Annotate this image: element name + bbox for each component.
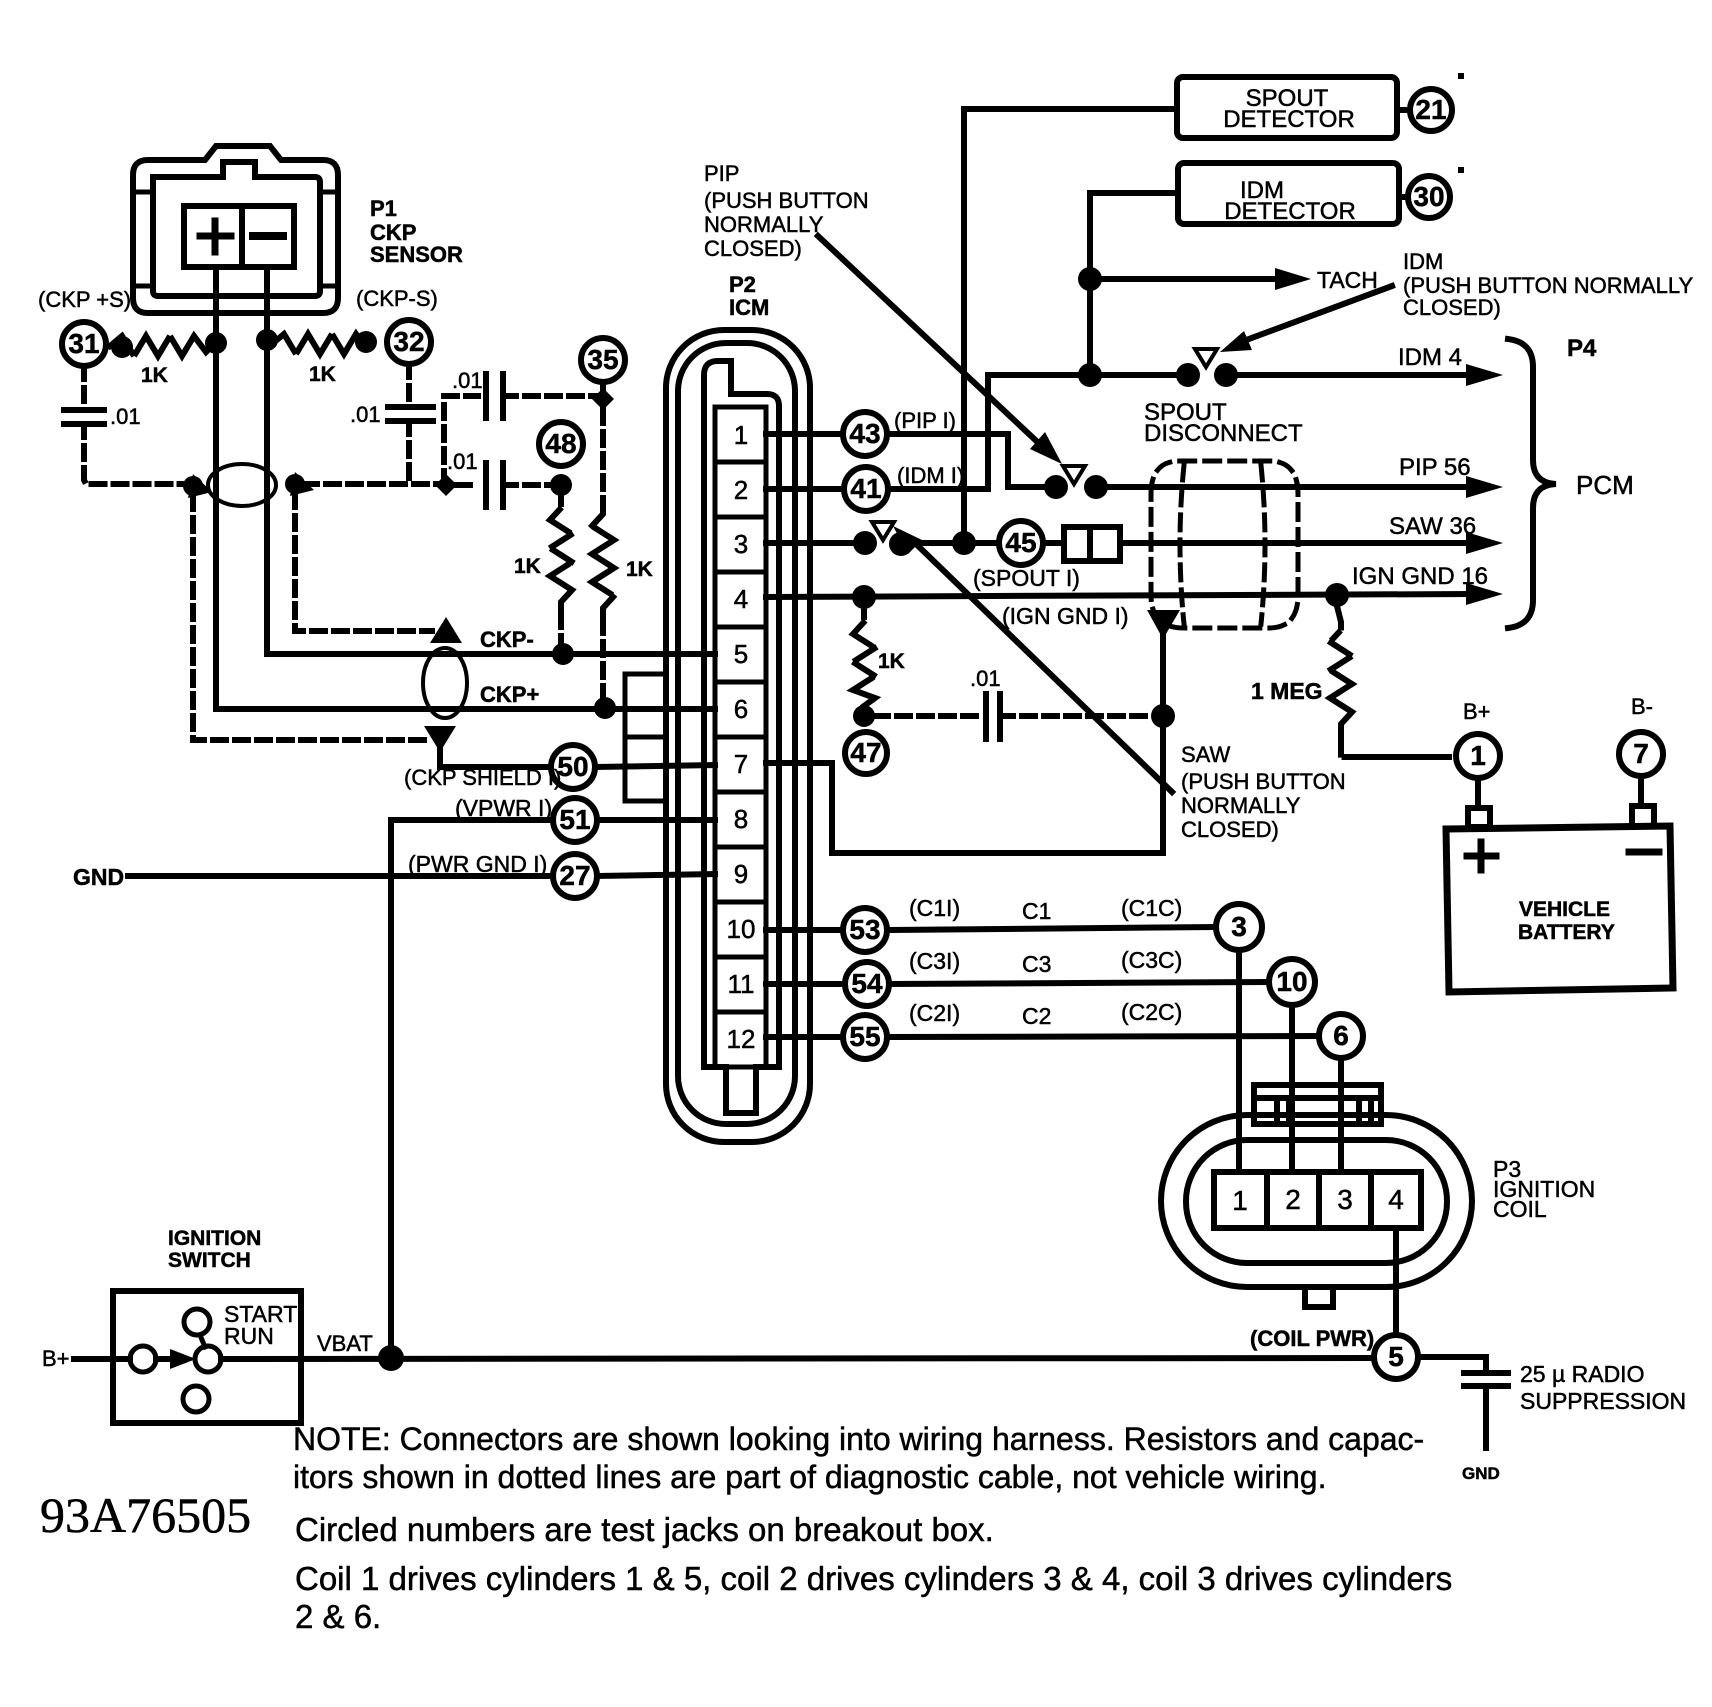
svg-text:6: 6 <box>1333 1020 1349 1051</box>
switch lever <box>200 1335 205 1347</box>
svg-text:2: 2 <box>734 475 748 505</box>
label P1 CKP SENSOR <box>370 196 463 267</box>
label CKP- <box>480 627 534 652</box>
svg-text:5: 5 <box>734 639 748 669</box>
svg-text:48: 48 <box>545 428 576 459</box>
svg-text:(C3I): (C3I) <box>909 948 960 974</box>
svg-text:(VPWR I): (VPWR I) <box>455 795 552 821</box>
wire pin2 to jack 41 <box>766 486 844 492</box>
push button NC symbol on PIP line <box>1063 466 1085 484</box>
labels C2 row <box>909 999 1182 1029</box>
IDM DETECTOR box <box>1178 163 1399 224</box>
arrow dot right of twisted pair <box>285 472 314 496</box>
resistor 1K column left (48 to CKP-) dashed zigzag <box>550 496 572 614</box>
svg-text:(C2C): (C2C) <box>1121 999 1182 1025</box>
svg-text:8: 8 <box>734 804 748 834</box>
arrowhead up at end of branch <box>430 617 462 643</box>
svg-text:30: 30 <box>1413 181 1444 212</box>
connector P2 ICM inner key outline <box>704 361 779 1113</box>
svg-text:P1: P1 <box>370 196 397 221</box>
svg-text:1K: 1K <box>626 558 653 581</box>
asterisk dot near 21 <box>1458 73 1464 79</box>
dashed shield vertical from twisted pair down <box>193 496 428 740</box>
svg-text:itors shown in dotted lines ar: itors shown in dotted lines are part of … <box>293 1459 1326 1495</box>
svg-text:.01: .01 <box>110 404 141 429</box>
svg-text:DETECTOR: DETECTOR <box>1224 198 1356 225</box>
svg-text:.01: .01 <box>350 402 381 427</box>
label IDM 4 <box>1398 344 1462 371</box>
test jack 55 <box>843 1015 887 1059</box>
pointer line from IDM text to IDM NC symbol <box>1238 286 1392 343</box>
junction diamond at x444 on shield run <box>435 474 457 496</box>
svg-text:CKP-: CKP- <box>480 627 534 652</box>
label 1K right <box>309 363 336 386</box>
svg-text:SENSOR: SENSOR <box>370 242 463 267</box>
svg-text:1: 1 <box>1232 1185 1248 1216</box>
P2 pin 4 box <box>715 572 766 627</box>
svg-text:25 µ RADIO: 25 µ RADIO <box>1520 1361 1644 1387</box>
junction dot TACH <box>1078 267 1102 291</box>
junction diamond below jack 35 <box>592 388 614 410</box>
test jack 1 B+ <box>1456 734 1500 778</box>
svg-text:3: 3 <box>1337 1184 1353 1215</box>
battery plus mark <box>1467 842 1496 870</box>
svg-text:21: 21 <box>1415 94 1446 125</box>
wire CKP+ from P1 plus pin down and right to ICM pin 6 <box>216 267 715 709</box>
wire C1 jack 53 to jack 3 <box>887 927 1216 930</box>
label B- <box>1631 694 1653 719</box>
test jack 48 <box>539 422 583 466</box>
P3 coil pin 4 box <box>1371 1172 1421 1228</box>
svg-text:27: 27 <box>559 860 590 891</box>
label CKP+ <box>480 682 539 707</box>
upper dashed branch to jack 35 <box>444 396 478 484</box>
svg-text:(PWR GND I): (PWR GND I) <box>408 851 547 877</box>
P3 coil pin numbers <box>1232 1184 1404 1216</box>
label .01 upper branch cap <box>452 368 483 393</box>
P2 pin 2 box <box>715 462 766 517</box>
svg-text:10: 10 <box>727 914 756 944</box>
wire jack 27 to pin 9 <box>597 874 715 876</box>
svg-text:1 MEG: 1 MEG <box>1251 678 1323 704</box>
label IDM DETECTOR <box>1224 177 1356 225</box>
jack number 35 <box>587 344 618 375</box>
svg-text:IDM: IDM <box>1403 249 1443 274</box>
svg-text:43: 43 <box>849 418 880 449</box>
svg-text:31: 31 <box>68 328 99 359</box>
wire VBAT from switch to jack 5 and beyond <box>221 1358 1374 1359</box>
test jack 47 <box>845 732 887 774</box>
svg-text:1K: 1K <box>878 650 905 673</box>
svg-text:53: 53 <box>849 914 880 945</box>
label .01 jack32 cap <box>350 402 381 427</box>
test jack 45 <box>999 521 1043 565</box>
label (CKP-S) <box>356 286 438 311</box>
wire pin10 to jack 53 <box>766 927 843 933</box>
arrowhead of PIP pointer <box>1030 432 1062 464</box>
svg-text:11: 11 <box>728 969 755 999</box>
label (COIL PWR) <box>1250 1326 1374 1351</box>
test jack 43 <box>843 412 887 456</box>
label (CKP SHIELD I) <box>404 765 561 790</box>
wire B+ into switch <box>74 1356 130 1362</box>
svg-text:RUN: RUN <box>224 1323 274 1349</box>
jack number 27 <box>559 860 590 891</box>
P1 pin box minus <box>242 206 294 267</box>
wire PIP 56 to PCM <box>1108 484 1471 490</box>
svg-text:(CKP-S): (CKP-S) <box>356 286 438 311</box>
wire PIP from jack 43 stepping down <box>887 434 1044 487</box>
P1 pin box plus <box>184 206 242 267</box>
svg-text:NORMALLY: NORMALLY <box>704 212 824 237</box>
test jack 3 <box>1216 904 1262 950</box>
svg-text:5: 5 <box>1388 1341 1404 1372</box>
label SPOUT DETECTOR <box>1223 85 1355 133</box>
arrowhead IGN GND 16 <box>1466 583 1503 605</box>
svg-text:CKP+: CKP+ <box>480 682 539 707</box>
label VEHICLE BATTERY <box>1518 898 1615 944</box>
shield drain arrowhead below grommet <box>1147 610 1180 639</box>
push button NC symbol on SAW line <box>872 522 894 540</box>
svg-text:(COIL PWR): (COIL PWR) <box>1250 1326 1374 1351</box>
label (PIP I) <box>894 408 956 433</box>
svg-text:12: 12 <box>727 1024 756 1054</box>
test jack 31 <box>62 322 106 366</box>
wire TACH <box>1090 276 1280 282</box>
jack number 6 <box>1333 1020 1349 1051</box>
dashed shield run right of twisted pair to 48 junction <box>304 481 440 487</box>
svg-text:51: 51 <box>559 804 590 835</box>
resistor 1 MEG dashed zigzag <box>1330 606 1449 757</box>
ignition switch contact bottom <box>183 1386 209 1412</box>
svg-text:54: 54 <box>851 968 883 999</box>
label P2 ICM <box>729 272 769 320</box>
junction dot IDM detector column <box>1078 363 1102 387</box>
resistor 1K below pin4 line (dashed zigzag) <box>853 609 875 706</box>
note coil drives line 1 <box>295 1560 1452 1597</box>
arrowhead SAW 36 <box>1466 532 1503 554</box>
junction dot PIP NC right <box>1084 475 1108 499</box>
plus symbol <box>200 221 231 252</box>
P3 ignition coil outer oval <box>1161 1115 1472 1287</box>
jack number 30 <box>1413 181 1444 212</box>
resistor 1K between CKP- wire and jack 32 (dashed zigzag) <box>272 334 366 354</box>
svg-text:SUPPRESSION: SUPPRESSION <box>1520 1388 1686 1414</box>
label PCM <box>1576 470 1634 500</box>
svg-text:(PUSH BUTTON: (PUSH BUTTON <box>1181 769 1346 794</box>
ignition switch contact middle <box>195 1346 221 1372</box>
svg-text:6: 6 <box>734 694 748 724</box>
label SAW push button block <box>1181 742 1346 842</box>
jack number 7 <box>1633 738 1649 769</box>
label (VPWR I) <box>455 795 552 821</box>
note circled numbers <box>295 1511 994 1548</box>
svg-text:3: 3 <box>1231 911 1247 942</box>
junction dot above jack 47 <box>853 705 875 727</box>
svg-text:.01: .01 <box>970 666 1001 691</box>
jack number 5 <box>1388 1341 1404 1372</box>
junction dot SPOUT detector column <box>952 531 976 555</box>
test jack 6 <box>1319 1014 1363 1058</box>
wire jack 6 down to coil pin 3 <box>1338 1058 1344 1172</box>
wire VPWR corner from VBAT junction up to jack 51 and pin 8 <box>391 820 553 1357</box>
label SPOUT DISCONNECT <box>1144 399 1303 447</box>
svg-text:1K: 1K <box>141 364 168 387</box>
wire GND to jack 27 <box>128 873 553 879</box>
jack 35 lead <box>600 382 606 390</box>
junction dot SAW NC right <box>889 532 913 556</box>
capacitor .01 below jack 32 <box>406 364 412 405</box>
label PIP 56 <box>1399 454 1471 481</box>
svg-text:DISCONNECT: DISCONNECT <box>1144 420 1303 447</box>
svg-text:GND: GND <box>73 864 124 890</box>
junction dot IDM NC right <box>1214 363 1238 387</box>
P2 pin 1 box <box>715 407 766 462</box>
svg-text:PIP: PIP <box>704 161 739 186</box>
P2 pin 11 box <box>715 957 766 1012</box>
junction dot on IGN GND at 1K column <box>852 585 876 609</box>
connector P1 CKP sensor outer shell <box>133 146 338 313</box>
battery negative terminal <box>1632 776 1654 826</box>
svg-text:1: 1 <box>734 420 748 450</box>
label P3 IGNITION COIL <box>1493 1156 1595 1222</box>
arrowhead TACH <box>1275 268 1311 290</box>
jack number 47 <box>850 737 881 768</box>
wire C2 jack 55 to jack 6 <box>887 1036 1319 1037</box>
note text line 1 <box>293 1421 1424 1457</box>
figure number 93A76505 <box>40 1487 251 1543</box>
P3 coil pin 3 box <box>1319 1172 1371 1228</box>
label (PWR GND I) <box>408 851 547 877</box>
P3 coil pin 1 box <box>1214 1172 1267 1228</box>
label START RUN <box>224 1301 297 1349</box>
label B+ bottom left <box>42 1346 70 1371</box>
svg-text:SWITCH: SWITCH <box>168 1249 251 1272</box>
junction dot IGN GND at 1MEG <box>1325 583 1349 607</box>
test jack 54 <box>845 962 889 1006</box>
P2 pin 12 box <box>715 1012 766 1067</box>
svg-text:7: 7 <box>1633 738 1649 769</box>
label IDM push button block <box>1403 249 1693 320</box>
svg-text:1K: 1K <box>514 555 541 578</box>
wire pin1 to jack 43 <box>766 431 843 437</box>
junction dot at jack31 resistor left <box>111 336 133 358</box>
jack number 51 <box>559 804 590 835</box>
svg-text:ICM: ICM <box>729 295 769 320</box>
svg-text:4: 4 <box>734 584 748 614</box>
junction dot VBAT <box>378 1345 404 1371</box>
svg-text:(SPOUT I): (SPOUT I) <box>973 565 1080 591</box>
junction diamond on CKP- at left 1K column <box>552 643 574 665</box>
jack number 3 <box>1231 911 1247 942</box>
test jack 50 <box>551 745 595 789</box>
junction dot PIP NC left <box>1044 475 1068 499</box>
label 25u RADIO SUPPRESSION <box>1520 1361 1686 1414</box>
note coil drives line 2 <box>295 1598 381 1635</box>
P3 coil top connector block <box>1254 1085 1381 1124</box>
switch arrow <box>156 1356 180 1362</box>
arrowhead IDM 4 <box>1466 364 1503 386</box>
svg-text:CLOSED): CLOSED) <box>704 236 802 261</box>
P2 pin 5 box <box>715 627 766 682</box>
label PIP push button block <box>704 161 869 261</box>
arrowhead of SAW pointer <box>893 526 922 554</box>
svg-text:2: 2 <box>1285 1184 1301 1215</box>
junction dot on drain vertical <box>1151 704 1175 728</box>
capacitor .01 below jack 31 <box>81 366 87 408</box>
junction dot on CKP+ wire <box>205 332 227 354</box>
svg-text:55: 55 <box>849 1021 880 1052</box>
P2 pin 9 box <box>715 847 766 902</box>
twisted pair marker ellipse on shield run <box>208 464 276 506</box>
svg-text:1K: 1K <box>309 363 336 386</box>
inline filter two-box component <box>1064 527 1120 561</box>
svg-text:3: 3 <box>734 529 748 559</box>
svg-text:IGNITION: IGNITION <box>168 1227 261 1250</box>
svg-text:NORMALLY: NORMALLY <box>1181 793 1301 818</box>
jack number 31 <box>68 328 99 359</box>
resistor 1K column right (35 to CKP+) dashed zigzag <box>600 410 606 508</box>
svg-text:IDM 4: IDM 4 <box>1398 344 1462 371</box>
label 1K pin4 resistor <box>878 650 905 673</box>
P2 mounting bracket left of pins 5-7 <box>625 674 666 801</box>
label 1K column right <box>626 558 653 581</box>
label IGN GND 16 <box>1352 563 1488 590</box>
test jack 30 <box>1399 176 1450 218</box>
jack number 45 <box>1005 527 1036 558</box>
jack number 50 <box>557 751 588 782</box>
svg-text:C3: C3 <box>1022 951 1051 977</box>
svg-text:.01: .01 <box>447 449 478 474</box>
minus symbol <box>253 232 283 240</box>
test jack 27 <box>553 854 597 898</box>
svg-text:45: 45 <box>1005 527 1036 558</box>
wire pin11 to jack 54 <box>766 981 845 987</box>
svg-text:35: 35 <box>587 344 618 375</box>
svg-text:50: 50 <box>557 751 588 782</box>
svg-text:B+: B+ <box>1463 699 1491 724</box>
wire C3 jack 54 to jack 10 <box>889 982 1269 984</box>
svg-text:PIP 56: PIP 56 <box>1399 454 1471 481</box>
svg-text:1: 1 <box>1470 740 1486 771</box>
test jack 32 <box>387 320 431 364</box>
dashed branch from right arrow dot down to up-arrow <box>295 494 432 631</box>
shield drain vertical wire down and left <box>766 634 1163 853</box>
svg-text:32: 32 <box>393 326 424 357</box>
dashed capacitor .01 run from 47 junction to drain wire <box>875 713 978 719</box>
svg-text:COIL: COIL <box>1493 1196 1547 1222</box>
label B+ <box>1463 699 1491 724</box>
wire IDM detector down to IDM4 line <box>1090 193 1178 375</box>
test jack 21 <box>1397 89 1452 131</box>
label VBAT <box>317 1331 373 1356</box>
label GND right <box>1462 1464 1500 1483</box>
svg-text:CLOSED): CLOSED) <box>1181 817 1279 842</box>
svg-text:(C3C): (C3C) <box>1121 947 1182 973</box>
ignition switch box <box>113 1291 301 1423</box>
jack number 48 <box>545 428 576 459</box>
pointer line from SAW text to SAW NC symbol <box>912 540 1172 792</box>
test jack 41 <box>844 467 888 511</box>
arrowhead PIP 56 <box>1466 476 1503 498</box>
junction dot below jack 48 <box>550 474 572 496</box>
svg-text:NOTE: Connectors are shown loo: NOTE: Connectors are shown looking into … <box>293 1421 1424 1457</box>
label IGNITION SWITCH <box>168 1227 261 1272</box>
P3 coil bottom tab <box>1305 1287 1333 1307</box>
svg-text:(C1C): (C1C) <box>1121 895 1182 921</box>
svg-text:GND: GND <box>1462 1464 1500 1483</box>
wire CKP shield jack 50 to pin 7 <box>595 765 715 767</box>
P2 pin numbers <box>727 420 756 1054</box>
svg-text:Coil 1 drives cylinders 1 & 5,: Coil 1 drives cylinders 1 & 5, coil 2 dr… <box>295 1560 1452 1597</box>
jack number 41 <box>850 473 881 504</box>
P2 pin 8 box <box>715 792 766 847</box>
capacitor .01 in upper branch <box>486 374 503 418</box>
wire IDM from jack 41 up to IDM4 line <box>888 375 988 489</box>
ignition switch contact left <box>130 1346 156 1372</box>
wire SAW 36 to PCM <box>1120 540 1471 546</box>
label P4 <box>1567 335 1597 362</box>
junction dot on CKP+ at right 1K column <box>594 697 616 719</box>
radio suppression capacitor <box>1464 1373 1508 1386</box>
svg-text:SAW 36: SAW 36 <box>1389 513 1476 540</box>
jack number 10 <box>1276 966 1307 997</box>
svg-text:4: 4 <box>1388 1184 1404 1215</box>
svg-text:Circled numbers are test jacks: Circled numbers are test jacks on breako… <box>295 1511 994 1548</box>
shield arrowhead down to jack 50 <box>424 726 456 752</box>
wire jack 3 down to coil pin 1 <box>1236 950 1242 1172</box>
wire CKP- from P1 minus pin down and right to ICM pin 5 <box>267 267 715 654</box>
label 1K column left <box>514 555 541 578</box>
jack number 43 <box>849 418 880 449</box>
jack number 32 <box>393 326 424 357</box>
SPOUT DETECTOR box <box>1177 77 1397 138</box>
svg-text:VBAT: VBAT <box>317 1331 373 1356</box>
svg-text:C1: C1 <box>1022 898 1051 924</box>
connector P2 ICM second shell <box>678 343 795 1124</box>
svg-text:P2: P2 <box>729 272 756 297</box>
svg-text:VEHICLE: VEHICLE <box>1519 898 1610 921</box>
junction dot at jack32 resistor right <box>355 331 377 353</box>
label SAW 36 <box>1389 513 1476 540</box>
wire pin12 to jack 55 <box>766 1034 843 1040</box>
svg-text:(IGN GND I): (IGN GND I) <box>1002 603 1129 629</box>
arrowhead of IDM pointer <box>1220 331 1252 352</box>
svg-text:.01: .01 <box>452 368 483 393</box>
resistor 1K between jack 31 and CKP+ wire (dashed zigzag) <box>110 336 214 356</box>
jack number 1 <box>1470 740 1486 771</box>
svg-text:B-: B- <box>1631 694 1653 719</box>
junction dot on CKP- wire <box>256 329 278 351</box>
jack number 53 <box>849 914 880 945</box>
test jack 7 B- <box>1619 732 1663 776</box>
capacitor .01 in shield run (to 48) <box>457 482 478 488</box>
svg-text:C2: C2 <box>1022 1003 1051 1029</box>
P2 pin 6 box <box>715 682 766 737</box>
wire pin4 IGN GND to PCM <box>766 594 1471 597</box>
junction dot IDM NC left <box>1176 363 1200 387</box>
connector P1 inner shell with key tab <box>153 162 320 296</box>
P3 ignition coil inner oval <box>1186 1140 1447 1263</box>
test jack 10 <box>1269 959 1315 1005</box>
svg-text:SAW: SAW <box>1181 742 1231 767</box>
wire jack 51 to pin 8 <box>597 817 715 823</box>
label 1K left <box>141 364 168 387</box>
wire jack 5 to radio suppression capacitor <box>1418 1357 1486 1371</box>
note text line 2 <box>293 1459 1326 1495</box>
label (SPOUT I) <box>973 565 1080 591</box>
label 1 MEG <box>1251 678 1323 704</box>
